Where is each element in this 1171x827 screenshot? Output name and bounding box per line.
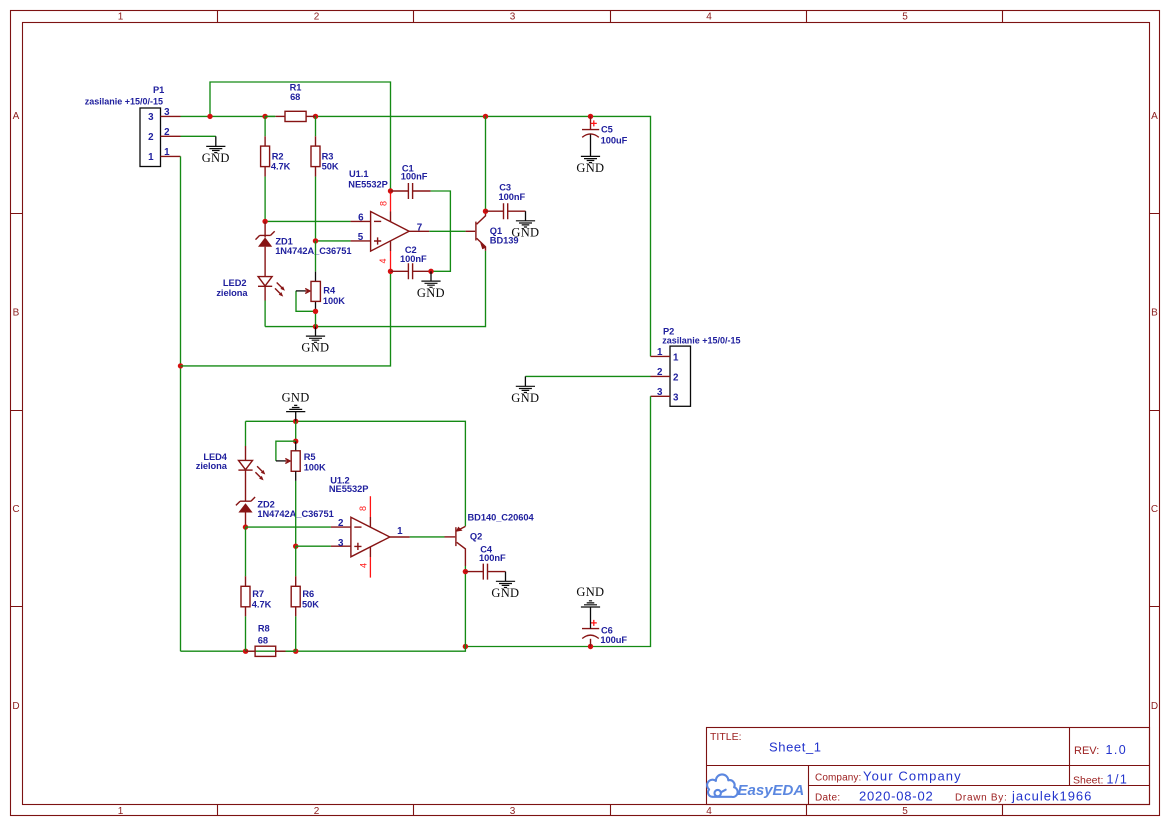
svg-text:GND: GND — [202, 151, 230, 165]
svg-text:2020-08-02: 2020-08-02 — [859, 789, 934, 804]
node C6 bottom — [588, 644, 593, 649]
U1.2 pin 4 power line — [369, 547, 371, 557]
svg-text:R4: R4 — [323, 286, 336, 296]
svg-text:BD140_C20604: BD140_C20604 — [468, 513, 535, 523]
svg-text:C: C — [12, 504, 19, 515]
node pin3 net / R6 — [293, 544, 298, 549]
ruler row ticks right — [1150, 214, 1160, 607]
svg-text:100nF: 100nF — [499, 192, 526, 202]
node R8 left — [243, 649, 248, 654]
U1.2 pin 8 power line — [369, 517, 371, 527]
wire GND rail lower — [246, 421, 466, 526]
svg-text:R3: R3 — [322, 151, 334, 161]
svg-text:R2: R2 — [272, 151, 284, 161]
capacitor C5 polarized — [590, 116, 592, 129]
P1 pin numbers outside — [164, 107, 170, 158]
node Q2 collector / C4 — [463, 569, 468, 574]
LED4 light arrows — [255, 466, 263, 478]
svg-text:100nF: 100nF — [479, 553, 506, 563]
svg-text:NE5532P: NE5532P — [329, 484, 368, 494]
svg-text:B: B — [1151, 308, 1158, 319]
svg-text:2: 2 — [673, 372, 679, 383]
resistor R2 — [264, 116, 266, 136]
svg-text:U1.1: U1.1 — [349, 169, 368, 179]
svg-text:NE5532P: NE5532P — [348, 179, 387, 189]
node V- branch — [178, 363, 183, 368]
P1 pin numbers inside — [148, 112, 154, 163]
node bottom rail jog — [463, 644, 468, 649]
svg-text:1N4742A_C36751: 1N4742A_C36751 — [275, 246, 351, 256]
resistor R1 — [265, 115, 276, 117]
svg-text:1/1: 1/1 — [1107, 772, 1129, 786]
svg-text:2: 2 — [314, 12, 320, 23]
ruler column numbers top — [118, 12, 909, 23]
GND flag at C6 (inverted) — [581, 601, 600, 607]
U1.1 pin 8 power line — [390, 212, 392, 222]
GND flag at P1 pin 2 — [181, 135, 216, 137]
svg-text:R8: R8 — [258, 623, 270, 633]
svg-text:Sheet:: Sheet: — [1073, 774, 1103, 786]
GND flag at P2 pin2 — [524, 376, 526, 386]
wire V+ net P1.3 to R1 — [181, 115, 276, 117]
svg-text:Q2: Q2 — [470, 532, 482, 542]
svg-text:GND: GND — [301, 341, 329, 355]
node pin6/R2 — [262, 219, 267, 224]
svg-text:GND: GND — [576, 585, 604, 599]
led LED4 — [245, 421, 247, 446]
svg-text:5: 5 — [902, 12, 908, 23]
svg-text:Drawn By:: Drawn By: — [955, 793, 1007, 804]
node Q1 collector top — [483, 114, 488, 119]
ruler row letters left — [12, 111, 19, 712]
svg-text:R5: R5 — [304, 452, 316, 462]
op-amp U1.1 — [371, 212, 410, 252]
wire V+ loop to opamp pin8 — [210, 82, 391, 191]
svg-text:R6: R6 — [302, 589, 314, 599]
resistor R6 — [295, 576, 297, 616]
R5 wiper arrow — [276, 441, 296, 461]
P2 pin numbers outside — [657, 347, 663, 398]
op-amp U1.2 — [351, 517, 390, 557]
U1.1 pin 4 power line — [390, 241, 392, 251]
node pin4/C2 — [388, 269, 393, 274]
transistor Q2 — [455, 527, 457, 546]
node pin5/R3 — [313, 238, 318, 243]
svg-text:REV:: REV: — [1074, 745, 1099, 757]
svg-text:100nF: 100nF — [400, 254, 427, 264]
wire P2 pin3 down to bottom rail — [465, 396, 650, 646]
svg-text:2: 2 — [314, 806, 320, 817]
GND flag at C4 — [505, 572, 507, 582]
capacitor C1 — [391, 190, 409, 192]
svg-text:1: 1 — [118, 806, 124, 817]
P2 pin 1 stub — [651, 355, 671, 357]
svg-text:GND: GND — [511, 226, 539, 240]
ruler row ticks left — [11, 214, 23, 607]
node ZD2 / pin2 net — [243, 524, 248, 529]
P1 pin 3 stub — [161, 115, 181, 117]
svg-text:100uF: 100uF — [600, 635, 627, 645]
svg-text:zasilanie +15/0/-15: zasilanie +15/0/-15 — [85, 96, 163, 106]
svg-text:1.0: 1.0 — [1106, 743, 1128, 757]
svg-text:50K: 50K — [322, 162, 339, 172]
wire opamp out to Q1 base — [409, 230, 429, 232]
svg-text:2: 2 — [148, 132, 154, 143]
svg-text:A: A — [13, 111, 20, 122]
svg-text:4: 4 — [359, 563, 369, 568]
svg-text:3: 3 — [148, 112, 154, 123]
wire opamp pin5 net — [316, 240, 351, 242]
node R1 right — [313, 114, 318, 119]
svg-text:R7: R7 — [252, 589, 264, 599]
capacitor C2 — [391, 270, 409, 272]
svg-text:zielona: zielona — [196, 461, 228, 471]
svg-text:6: 6 — [358, 212, 364, 223]
GND flag above lower rail — [295, 412, 297, 422]
wire R5 down to R6 — [295, 546, 297, 576]
svg-text:4: 4 — [706, 806, 712, 817]
svg-text:68: 68 — [290, 92, 300, 102]
wire P1.1 V- vertical — [180, 156, 182, 651]
zener ZD1 — [264, 221, 266, 237]
svg-text:zasilanie +15/0/-15: zasilanie +15/0/-15 — [662, 336, 740, 346]
wire Q1 collector up — [485, 116, 487, 211]
svg-text:1: 1 — [164, 147, 170, 158]
zener ZD2 — [236, 497, 255, 505]
GND flag at C5 — [581, 156, 600, 162]
svg-text:4.7K: 4.7K — [271, 162, 291, 172]
svg-text:LED2: LED2 — [223, 278, 247, 288]
node pin8/C1 — [388, 188, 393, 193]
svg-text:100K: 100K — [323, 296, 345, 306]
svg-text:3: 3 — [673, 392, 679, 403]
P2 pin numbers inside — [673, 352, 679, 403]
svg-text:Sheet_1: Sheet_1 — [769, 740, 822, 755]
svg-text:jaculek1966: jaculek1966 — [1011, 789, 1092, 804]
title block frame — [707, 728, 1150, 805]
svg-text:1: 1 — [148, 152, 154, 163]
wire opamp2 pin2 net — [246, 526, 331, 528]
svg-text:C: C — [1151, 504, 1158, 515]
P1 pin 1 stub — [161, 155, 181, 157]
svg-text:1: 1 — [397, 526, 403, 537]
svg-text:ZD1: ZD1 — [275, 236, 292, 246]
wire opamp2 out to Q2 base — [390, 536, 410, 538]
svg-text:3: 3 — [338, 538, 344, 549]
P1 pin 2 stub — [161, 135, 181, 137]
ruler row letters right — [1151, 111, 1158, 712]
svg-text:D: D — [1151, 701, 1158, 712]
led LED2 — [258, 277, 272, 286]
ruler column ticks bottom — [218, 805, 1003, 816]
svg-text:1: 1 — [118, 12, 124, 23]
R4 wiper arrow — [296, 291, 316, 312]
svg-text:2: 2 — [657, 367, 663, 378]
svg-text:Date:: Date: — [815, 793, 840, 804]
svg-text:8: 8 — [379, 201, 389, 206]
P2 pin 3 stub — [651, 395, 671, 397]
svg-text:100K: 100K — [304, 463, 326, 473]
svg-text:2: 2 — [164, 127, 170, 138]
svg-text:GND: GND — [282, 391, 310, 405]
EasyEDA logo — [707, 774, 738, 797]
wire V- branch to opamp pin4 — [181, 271, 391, 366]
svg-text:Company:: Company: — [815, 773, 861, 784]
svg-text:GND: GND — [491, 586, 519, 600]
capacitor C3 — [486, 210, 504, 212]
node Q1 collector / C3 — [483, 209, 488, 214]
svg-text:GND: GND — [576, 161, 604, 175]
GND flag at C3 — [525, 211, 527, 221]
transistor Q1 — [475, 222, 477, 241]
node junction P1.3 — [207, 114, 212, 119]
svg-text:P1: P1 — [153, 85, 164, 95]
capacitor C4 — [465, 571, 483, 573]
node GND flag lower rail — [293, 419, 298, 424]
svg-text:C6: C6 — [601, 625, 613, 635]
node R1 left — [262, 114, 267, 119]
wire ZD2 down to R7 — [245, 527, 247, 576]
svg-text:3: 3 — [510, 806, 516, 817]
svg-text:C3: C3 — [499, 182, 511, 192]
potentiometer R4 — [315, 241, 317, 272]
svg-text:GND: GND — [511, 391, 539, 405]
wire opamp2 pin3 net — [296, 545, 331, 547]
capacitor C6 polarized — [590, 639, 592, 647]
svg-text:Your Company: Your Company — [863, 769, 962, 784]
wire opamp pin6 net — [265, 220, 351, 222]
svg-text:3: 3 — [510, 12, 516, 23]
svg-text:Q1: Q1 — [490, 226, 502, 236]
connector P2 — [670, 346, 691, 406]
svg-text:4.7K: 4.7K — [252, 599, 272, 609]
resistor R8 — [246, 650, 256, 652]
svg-text:4: 4 — [706, 12, 712, 23]
svg-text:2: 2 — [338, 518, 344, 529]
svg-text:3: 3 — [164, 107, 170, 118]
GND flag upper rail — [315, 327, 317, 336]
svg-text:8: 8 — [358, 506, 368, 511]
svg-text:1: 1 — [657, 347, 663, 358]
svg-text:4: 4 — [378, 258, 388, 263]
wire V+ net R1 right to P2 pin1 — [316, 116, 651, 356]
svg-text:5: 5 — [358, 232, 364, 243]
connector P1 — [140, 108, 161, 167]
svg-text:1: 1 — [673, 352, 679, 363]
svg-text:EasyEDA: EasyEDA — [738, 782, 805, 799]
node C5 top — [588, 114, 593, 119]
svg-text:A: A — [1151, 111, 1158, 122]
resistor R3 — [315, 116, 317, 136]
GND flag at C2 — [430, 271, 432, 281]
svg-text:GND: GND — [417, 286, 445, 300]
svg-text:5: 5 — [902, 806, 908, 817]
svg-text:zielona: zielona — [216, 288, 248, 298]
wire bottom rail left — [181, 647, 466, 652]
node R4 bottom rail — [313, 324, 318, 329]
svg-text:B: B — [13, 308, 20, 319]
svg-text:C5: C5 — [601, 125, 613, 135]
svg-text:100uF: 100uF — [601, 136, 628, 146]
node R8 right — [293, 649, 298, 654]
svg-text:3: 3 — [657, 387, 663, 398]
ruler column numbers bottom — [118, 806, 909, 817]
wire Q2 emitter up to rail (covered) + collector down — [464, 566, 466, 647]
svg-text:TITLE:: TITLE: — [710, 731, 742, 743]
wire P2 pin2 to GND — [525, 375, 650, 377]
wire C1 feedback loop — [431, 191, 451, 271]
potentiometer R5 — [295, 421, 297, 441]
wire GND rail upper — [265, 251, 485, 327]
svg-text:100nF: 100nF — [401, 172, 428, 182]
svg-text:D: D — [12, 701, 19, 712]
ruler column ticks top — [218, 11, 1003, 23]
svg-text:68: 68 — [258, 636, 268, 646]
svg-text:50K: 50K — [302, 599, 319, 609]
resistor R7 — [245, 576, 247, 616]
LED2 light arrows — [275, 283, 283, 295]
P2 pin 2 stub — [651, 375, 671, 377]
